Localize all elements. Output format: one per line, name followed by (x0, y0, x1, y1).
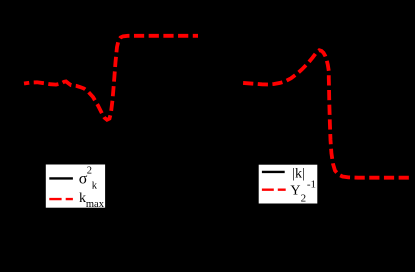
legend box right (258, 164, 318, 204)
legend right: |k| sample line (262, 171, 285, 173)
svg-text:max: max (86, 199, 105, 210)
svg-text:2: 2 (301, 192, 307, 204)
svg-text:2: 2 (87, 166, 92, 177)
svg-text:-1: -1 (307, 179, 316, 191)
svg-text:|k|: |k| (292, 166, 305, 181)
legend left: k_max sample dashes (49, 198, 73, 200)
legend right: Y2^-1 sample dashes (262, 188, 286, 190)
legend left: sigma^2_k sample line (49, 177, 73, 179)
curve k_max (left panel, red dashed) (24, 36, 198, 120)
svg-text:Y: Y (290, 183, 300, 198)
svg-text:k: k (92, 181, 98, 192)
legend box left (45, 164, 106, 209)
curve Y2^-1 (right panel, red dashed) (242, 50, 411, 178)
